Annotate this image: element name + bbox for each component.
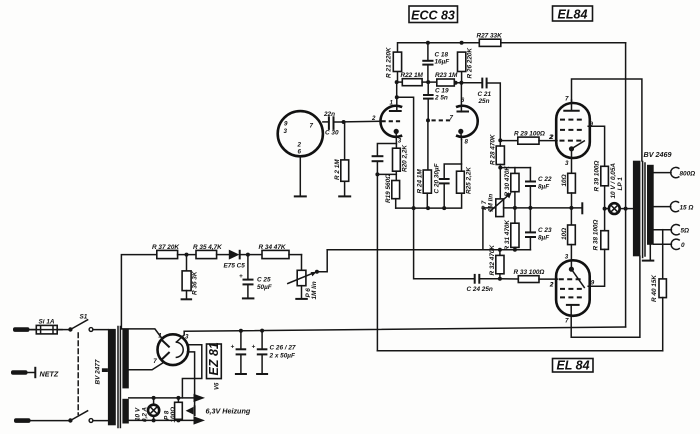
svg-text:800Ω: 800Ω — [680, 171, 696, 178]
wire feedback bottom — [377, 350, 662, 352]
capacitor C25 50uF — [239, 255, 273, 298]
resistor R22 1M — [395, 72, 429, 86]
svg-text:3: 3 — [284, 128, 288, 135]
lamp LP1 10V 0.05A — [603, 163, 628, 214]
capacitor C30 22n — [323, 111, 343, 137]
pentode V3 EL84 top — [549, 96, 594, 174]
svg-text:3: 3 — [565, 253, 569, 260]
wire P6 wiper to divider — [315, 250, 327, 274]
resistor R31 470K — [504, 208, 519, 251]
resistor R2 1M — [334, 122, 349, 196]
svg-text:8µF: 8µF — [538, 235, 550, 242]
svg-text:10 V: 10 V — [135, 407, 142, 421]
wire V4 plate to OPT — [571, 256, 640, 337]
svg-text:6: 6 — [298, 149, 302, 156]
svg-text:16µF: 16µF — [435, 59, 451, 66]
resistor R23 1M — [426, 72, 482, 86]
svg-text:R 31 470K: R 31 470K — [504, 220, 511, 251]
potentiometer P8 100ohm — [164, 398, 183, 423]
svg-text:R19 560Ω: R19 560Ω — [385, 174, 392, 203]
svg-text:C 21: C 21 — [478, 91, 492, 98]
resistor 10ohm bottom — [561, 208, 575, 260]
svg-text:10Ω: 10Ω — [561, 228, 568, 240]
svg-text:R 39 100Ω: R 39 100Ω — [594, 161, 601, 192]
resistor R24 1M — [417, 118, 432, 208]
svg-text:C 23: C 23 — [538, 227, 552, 234]
wire socket output — [323, 121, 328, 123]
capacitor C27 50uF — [252, 331, 296, 374]
wiper P8 arrow — [186, 405, 195, 416]
resistor R37 20K — [152, 244, 196, 259]
svg-text:R25 2,2K: R25 2,2K — [466, 167, 473, 194]
svg-text:25n: 25n — [478, 98, 490, 105]
svg-text:C 30: C 30 — [325, 130, 339, 137]
node V2 plate junction — [459, 81, 463, 85]
pentode V4 EL84 bottom — [549, 253, 595, 324]
svg-text:50µF: 50µF — [257, 284, 273, 291]
wire EZ81 cathode to B+ — [176, 331, 184, 342]
svg-text:R 28 470K: R 28 470K — [490, 134, 497, 165]
terminal 5ohm — [654, 225, 689, 235]
node B+ filter rail — [121, 255, 156, 329]
node R28 bottom junction — [498, 166, 530, 170]
node R36 junction — [185, 253, 189, 257]
svg-text:C 20 30µF: C 20 30µF — [434, 162, 441, 193]
resistor R19 560ohm — [385, 174, 399, 208]
svg-text:R 38 100Ω: R 38 100Ω — [593, 220, 600, 251]
resistor R28 470K — [490, 134, 505, 168]
capacitor C23 8uF — [525, 208, 552, 250]
resistor R25 2.2K — [457, 140, 473, 195]
resistor R38 100ohm — [588, 209, 608, 287]
node C25 junction — [246, 253, 250, 257]
svg-text:3: 3 — [398, 138, 402, 145]
switch S1 pole 2 — [31, 411, 108, 423]
wire B+ main line — [184, 327, 625, 333]
resistor R29 100ohm — [500, 131, 557, 145]
svg-text:EL84: EL84 — [558, 7, 588, 21]
svg-text:R 33 100Ω: R 33 100Ω — [514, 269, 545, 276]
triode V2 (ECC83 b) — [432, 83, 478, 146]
node heater rail top — [129, 394, 205, 402]
node heater rail bottom — [129, 416, 205, 424]
capacitor cathode bypass V1 — [372, 144, 397, 175]
svg-text:2: 2 — [549, 134, 554, 141]
wire B+ to OPT primary centre — [626, 208, 633, 210]
svg-text:2: 2 — [549, 281, 554, 288]
svg-text:R 30 470K: R 30 470K — [504, 166, 511, 197]
svg-text:+: + — [239, 273, 243, 280]
node C21/R28/R29 junction — [498, 138, 502, 142]
svg-text:5Ω: 5Ω — [681, 228, 690, 235]
ground OPT secondary — [642, 245, 655, 261]
resistor R35 4.7K — [193, 244, 229, 259]
potentiometer P7 1M lin — [481, 168, 512, 217]
wire B+ vertical right — [625, 43, 627, 327]
wire EZ81 heater pin4 — [182, 345, 201, 398]
svg-text:8: 8 — [465, 139, 469, 146]
node C24/R32/R33 junction — [498, 277, 502, 281]
svg-text:22n: 22n — [323, 111, 335, 118]
svg-text:NETZ: NETZ — [40, 370, 59, 379]
terminal mains bottom — [14, 418, 31, 423]
svg-text:+: + — [231, 344, 235, 351]
svg-text:8µF: 8µF — [538, 184, 550, 191]
capacitor C18 16uF — [422, 43, 450, 82]
svg-text:E75 C5: E75 C5 — [224, 263, 246, 270]
svg-text:R22 1M: R22 1M — [401, 72, 424, 79]
terminal 0 — [654, 239, 685, 249]
node divider line — [327, 248, 530, 252]
terminal 800ohm — [654, 167, 695, 177]
svg-text:3: 3 — [185, 333, 189, 340]
node right cathode rail — [504, 202, 583, 214]
capacitor C20 30uF — [434, 162, 462, 208]
svg-text:0,2 A: 0,2 A — [142, 407, 149, 422]
ground C25 — [242, 297, 255, 299]
svg-text:6: 6 — [461, 97, 465, 104]
svg-text:1: 1 — [390, 100, 394, 107]
svg-text:R 2 1M: R 2 1M — [334, 159, 341, 180]
tube label ECC83 — [409, 6, 458, 23]
node B+ top rail — [398, 41, 626, 52]
capacitor C21 25n — [478, 78, 501, 141]
svg-text:R 32 470K: R 32 470K — [489, 245, 496, 276]
resistor R33 100ohm — [500, 269, 558, 289]
svg-text:R27 33K: R27 33K — [477, 33, 503, 40]
svg-text:BV 2477: BV 2477 — [95, 359, 102, 384]
node R20/R19 junction — [375, 172, 396, 176]
svg-text:C 18: C 18 — [435, 52, 449, 59]
switch S1 pole 1 — [57, 314, 108, 332]
wire V3 screen pin9 — [588, 126, 604, 166]
wire V3 plate to OPT — [572, 79, 642, 161]
resistor R20 2.2K — [393, 145, 409, 181]
node left rail — [396, 193, 462, 210]
svg-text:C 24 25n: C 24 25n — [467, 286, 493, 293]
svg-text:C 26 / 27: C 26 / 27 — [270, 345, 296, 352]
svg-text:C 25: C 25 — [257, 277, 271, 284]
svg-text:7: 7 — [450, 115, 454, 122]
wire EZ81 plate7 — [129, 362, 164, 370]
transformer BV2477 mains — [95, 327, 129, 428]
capacitor C19 25n — [423, 82, 449, 120]
capacitor C26 50uF — [231, 331, 247, 374]
svg-text:EL 84: EL 84 — [556, 359, 589, 373]
svg-text:LP 1: LP 1 — [617, 177, 624, 191]
svg-text:9: 9 — [591, 279, 595, 286]
svg-text:C 19: C 19 — [435, 88, 449, 95]
svg-text:1M lin: 1M lin — [488, 194, 495, 212]
svg-text:R 34 47K: R 34 47K — [259, 244, 286, 251]
resistor R21 220K — [386, 47, 402, 82]
svg-text:R 40 15K: R 40 15K — [651, 275, 658, 302]
svg-text:7: 7 — [565, 317, 569, 324]
svg-text:R 26 220K: R 26 220K — [467, 48, 474, 79]
svg-text:+: + — [252, 344, 256, 351]
resistor R40 15K — [651, 230, 666, 351]
resistor R26 220K — [458, 48, 474, 83]
resistor R39 100ohm — [594, 161, 609, 209]
wire EZ81 heater pin5 — [188, 352, 195, 405]
ground socket — [294, 156, 307, 196]
resistor 10ohm top — [561, 173, 575, 208]
svg-text:C 22: C 22 — [538, 176, 552, 183]
wire EZ81 plate1 — [121, 329, 162, 339]
ground P6 — [295, 298, 308, 300]
resistor R36 3K — [182, 255, 198, 299]
resistor R32 470K — [489, 245, 504, 279]
resistor R30 470K — [504, 166, 519, 208]
node C30/R2 junction — [342, 120, 346, 124]
wire to R34 — [248, 254, 262, 256]
tube label EL84 bottom — [553, 359, 594, 373]
svg-text:R 21 220K: R 21 220K — [386, 47, 393, 78]
svg-text:Si 1A: Si 1A — [39, 319, 55, 326]
ground R36 — [181, 298, 193, 300]
terminal mains top — [13, 327, 30, 332]
svg-text:R 29 100Ω: R 29 100Ω — [514, 131, 545, 138]
svg-text:3: 3 — [565, 160, 569, 167]
ground R2 — [338, 195, 351, 197]
svg-text:ECC 83: ECC 83 — [411, 8, 455, 22]
svg-text:10 V / 0,05A: 10 V / 0,05A — [610, 163, 617, 199]
wire P7 wiper to P6 line — [483, 208, 496, 250]
terminal NETZ — [11, 367, 59, 379]
svg-text:15 Ω: 15 Ω — [680, 205, 694, 212]
svg-text:R20 2,2K: R20 2,2K — [402, 145, 409, 172]
svg-text:7: 7 — [153, 358, 157, 365]
svg-text:2 x 50µF: 2 x 50µF — [269, 353, 296, 360]
svg-text:6,3V Heizung: 6,3V Heizung — [206, 407, 251, 416]
capacitor C24 25n — [414, 208, 500, 293]
lamp 10V 0.2A — [135, 398, 160, 422]
svg-text:R 24 1M: R 24 1M — [417, 169, 424, 194]
svg-text:R23 1M: R23 1M — [435, 72, 458, 79]
input connector socket — [278, 111, 323, 156]
svg-text:10Ω: 10Ω — [561, 174, 568, 186]
capacitor C22 8uF — [525, 168, 552, 208]
svg-text:7: 7 — [310, 123, 314, 130]
svg-text:0: 0 — [681, 242, 685, 249]
switch S1 link dashed — [77, 333, 79, 415]
fuse Si 1A — [30, 319, 63, 334]
svg-text:R 36 3K: R 36 3K — [192, 271, 199, 295]
wire grid V1 input — [343, 120, 381, 123]
wire plate V1 branch — [397, 97, 414, 208]
svg-text:100Ω: 100Ω — [170, 407, 177, 423]
svg-text:S1: S1 — [80, 314, 88, 321]
resistor R27 33K — [477, 33, 503, 47]
wire feedback vertical — [376, 174, 378, 350]
tube label EL84 top — [553, 6, 593, 21]
svg-text:9: 9 — [284, 121, 288, 128]
potentiometer P6 1M lin — [288, 255, 318, 300]
svg-text:7: 7 — [565, 96, 569, 103]
svg-text:V6: V6 — [215, 382, 221, 390]
svg-text:R 35 4,7K: R 35 4,7K — [193, 244, 222, 251]
rectifier V6 EZ81 — [153, 332, 189, 365]
svg-text:BV 2469: BV 2469 — [644, 150, 672, 159]
diode E75C5 — [224, 250, 248, 270]
svg-text:1M lin: 1M lin — [311, 281, 318, 299]
svg-text:2 5n: 2 5n — [434, 95, 448, 102]
label EZ81 boxed — [207, 342, 222, 390]
transformer BV2469 output — [633, 150, 672, 258]
triode V1 (ECC83 a) — [371, 82, 402, 148]
svg-text:R 37 20K: R 37 20K — [152, 244, 179, 251]
svg-text:2: 2 — [297, 142, 302, 149]
svg-text:EZ 81: EZ 81 — [207, 342, 221, 375]
resistor R34 47K — [259, 244, 302, 259]
terminal 15ohm — [654, 201, 694, 211]
